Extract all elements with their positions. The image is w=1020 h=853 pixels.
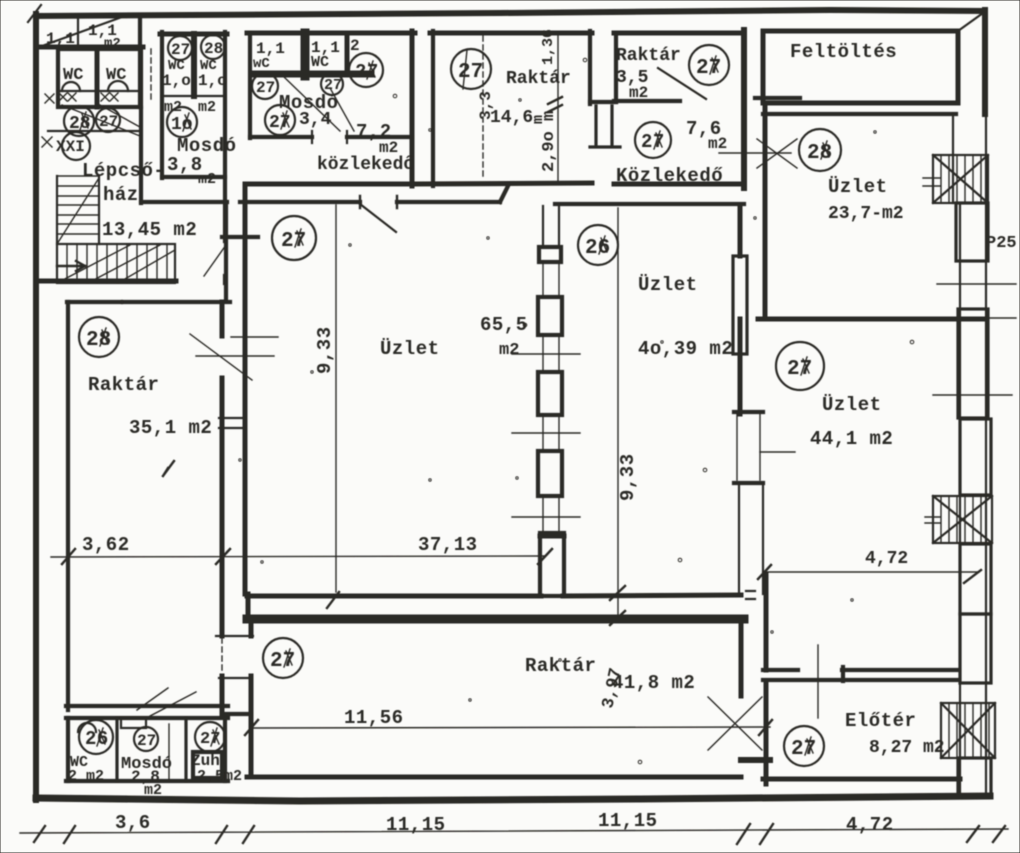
dashed door gap <box>221 638 223 674</box>
gap cross line b <box>512 353 580 355</box>
corner slash mark <box>28 5 41 22</box>
right pillar R3 <box>960 419 991 495</box>
sink fixture <box>121 718 146 728</box>
Mosdo34 block left wall <box>248 33 252 138</box>
wall stub to Feltoltes <box>755 96 800 100</box>
Raktar418 left wall lower <box>249 676 254 777</box>
svg-text:27: 27 <box>137 732 156 750</box>
small rooms divider 2 <box>184 718 187 781</box>
svg-text:27: 27 <box>270 650 295 673</box>
overstrike scribbles in circles <box>80 56 829 755</box>
kozlekedo bottom wall west <box>245 182 415 187</box>
x mark left of XXI <box>42 137 52 147</box>
landing bottom wall <box>38 279 176 284</box>
svg-text:2 m2: 2 m2 <box>68 768 104 785</box>
top-left band divider <box>77 18 79 46</box>
outer wall right top segment <box>982 10 988 114</box>
Raktar418 right wall <box>739 618 744 696</box>
svg-text:Üzlet: Üzlet <box>828 176 888 198</box>
Eloter dim tick line <box>817 645 819 718</box>
svg-text:WC: WC <box>63 66 83 85</box>
svg-text:27: 27 <box>324 77 342 94</box>
svg-text:m2: m2 <box>629 84 648 102</box>
pillar P4 cap <box>540 534 564 539</box>
svg-text:8,27 m2: 8,27 m2 <box>869 738 945 758</box>
svg-text:37,13: 37,13 <box>418 534 478 556</box>
shaft dashed line <box>150 49 152 101</box>
room circle 28 mosdo38 b <box>201 35 225 59</box>
pillar P4 bottom block <box>540 533 564 596</box>
room circle 27 mosdo34 c <box>349 53 383 87</box>
door diagonals to raktar <box>137 688 196 716</box>
svg-text:1,o: 1,o <box>162 72 191 90</box>
svg-text:26: 26 <box>585 237 610 260</box>
svg-text:27: 27 <box>791 738 816 761</box>
Mosdo38 shelf <box>162 95 225 97</box>
Uzlet door swing <box>360 204 396 232</box>
stair run diagonals <box>57 245 175 283</box>
Mosdo38 WC divider <box>191 34 197 96</box>
Uzlet east wall upper <box>738 206 743 256</box>
svg-text:P25: P25 <box>986 234 1017 253</box>
room circle 27 mosdo38 a <box>168 36 192 60</box>
room circle 28 wc left <box>64 106 94 136</box>
door swing diagonal mosdo34 b <box>330 88 354 131</box>
svg-text:27: 27 <box>696 57 721 80</box>
svg-text:9,33: 9,33 <box>617 453 639 501</box>
Raktar35 door diagonal <box>658 68 706 99</box>
door swing diagonal WC <box>62 105 140 136</box>
end tick uzlet bottom wall <box>746 591 755 599</box>
svg-text:27: 27 <box>458 61 483 84</box>
WC block right wall up to roof band <box>138 16 142 107</box>
room circle 27 wc left b <box>96 108 120 132</box>
room circle 27 raktar418 <box>263 638 303 678</box>
stub wall at corridor <box>222 235 258 239</box>
svg-text:közlekedő: közlekedő <box>317 155 414 175</box>
Raktar351 right wall low <box>220 676 225 714</box>
stair upper diagonal <box>57 178 99 244</box>
WC shelf line <box>58 90 141 92</box>
svg-text:11,15: 11,15 <box>598 810 658 832</box>
svg-text:1,1: 1,1 <box>46 30 75 48</box>
svg-text:3,4: 3,4 <box>299 110 332 130</box>
thin line right 2 <box>933 394 1012 396</box>
Uzlet40 top wall <box>555 202 744 206</box>
small rooms right wall <box>223 718 227 781</box>
svg-text:11,15: 11,15 <box>386 814 446 836</box>
line under WC circles <box>48 130 140 132</box>
room circle 26 wc bottom <box>79 720 113 754</box>
thin line under circle 28 <box>719 152 791 154</box>
pillar P2 <box>538 372 562 415</box>
svg-text:27: 27 <box>99 113 118 131</box>
pillar gap lines a <box>543 262 559 297</box>
svg-text:27: 27 <box>256 79 275 97</box>
window W2 left ticks <box>925 517 940 523</box>
fixture circle 10 <box>167 107 197 137</box>
room circle 27 mosdo bottom <box>134 727 158 751</box>
thin line beyond wall 319 <box>985 317 1016 319</box>
Eloter west wall <box>764 682 769 784</box>
Mosdo34 plumbing bar <box>252 71 371 78</box>
window W2 cross <box>933 496 992 543</box>
svg-text:1,36: 1,36 <box>540 29 557 65</box>
pillar gap lines d <box>543 496 559 533</box>
bottom dim line <box>20 829 1008 833</box>
stairwell top wall to corridor <box>141 200 227 204</box>
room circle 27 raktar35 <box>689 45 729 85</box>
Uzlet441 west wall upper <box>738 319 743 414</box>
pillar P1 <box>538 297 562 335</box>
window W1 left ticks <box>923 178 940 186</box>
Raktar35 bottom wall <box>614 99 680 103</box>
svg-text:Feltöltés: Feltöltés <box>790 41 897 63</box>
entrance stairs cross <box>941 703 995 758</box>
Uzlet237 top wall <box>763 112 956 116</box>
window W2 hatch <box>941 496 981 543</box>
shower box <box>193 752 222 778</box>
room circle 28 raktar351 <box>79 317 119 357</box>
Eloter top wall stub <box>763 668 798 672</box>
svg-text:11,56: 11,56 <box>344 707 404 729</box>
Raktar351 left wall <box>66 302 70 710</box>
entrance stairs W3 frame <box>941 703 995 758</box>
Uzlet top wall east of door <box>397 200 500 204</box>
Raktar351 top wall <box>67 300 230 304</box>
Raktar146 top wall <box>430 31 592 36</box>
Uzlet door jambs <box>360 196 397 208</box>
left double wall upper <box>224 202 228 300</box>
dim ticks 37 line <box>62 549 552 564</box>
Eloter west wall upper <box>764 574 769 670</box>
svg-text:14,6: 14,6 <box>490 108 533 128</box>
svg-text:Üzlet: Üzlet <box>822 394 882 416</box>
room circle 27 uzlet441 <box>776 342 824 390</box>
Raktar418 left wall upper <box>249 618 254 636</box>
svg-text:Üzlet: Üzlet <box>638 274 698 296</box>
Mosdo38 block right wall <box>223 32 227 241</box>
stair lower flight outline <box>57 244 175 283</box>
Mosdo38 right wall lower segment <box>223 276 227 283</box>
svg-text:27: 27 <box>787 358 812 381</box>
svg-text:2,9o m: 2,9o m <box>540 111 559 172</box>
svg-text:9,33: 9,33 <box>314 326 336 374</box>
door swing X to Eloter <box>708 697 762 750</box>
Uzlet441 wall opening bottom bar <box>734 481 763 485</box>
WC divider wall <box>95 49 100 107</box>
dim line vertical 2,90 <box>557 33 559 183</box>
Uzlet441 wall opening top bar <box>734 410 763 414</box>
door jamb ticks mosdo34 <box>312 131 347 143</box>
door swing diagonal WC 2 <box>100 105 140 127</box>
right wall outer line <box>985 114 987 795</box>
dim arrows on 2,90 <box>548 97 562 112</box>
svg-text:m2: m2 <box>499 341 519 360</box>
bottom dim ticks <box>34 824 1005 844</box>
stairwell right wall <box>139 108 143 203</box>
svg-text:m2: m2 <box>144 782 162 799</box>
svg-text:3,62: 3,62 <box>82 534 130 556</box>
tick on bottom wall <box>327 592 339 608</box>
svg-text:3,97: 3,97 <box>599 666 626 710</box>
svg-text:m2: m2 <box>198 171 216 188</box>
dim line 11,56 <box>251 727 770 728</box>
right wall inner line lower <box>959 203 961 795</box>
Uzlet bottom wall west <box>247 594 541 599</box>
svg-text:m2: m2 <box>198 99 216 116</box>
window W1 hatch <box>941 155 981 203</box>
small rooms divider 1 <box>115 718 118 781</box>
right pillar R1 <box>956 203 988 261</box>
Mosdo34 bottom wall left part <box>250 135 312 139</box>
Raktar146 right wall <box>588 31 592 104</box>
dim ticks 11,56 <box>245 720 772 735</box>
svg-text:4,72: 4,72 <box>865 549 908 569</box>
dim line 9,33 left <box>335 205 337 592</box>
door swing to Uzlet237 <box>757 139 797 168</box>
window W1 cross <box>933 155 988 203</box>
svg-text:m2: m2 <box>708 135 727 153</box>
Raktar35 top wall <box>614 31 744 36</box>
top-left roof diagonal <box>42 17 122 46</box>
small rooms top wall <box>66 716 228 720</box>
stair upper flight rails <box>56 176 58 244</box>
Uzlet441 wall opening jamb lines <box>737 414 760 480</box>
window W2 frame <box>933 496 992 543</box>
Mosdo34 WC divider 2 <box>345 33 350 74</box>
Raktar418 bottom wall <box>247 775 741 780</box>
stair lower flight treads <box>67 244 167 283</box>
Mosdo34 block right wall <box>410 31 415 186</box>
tick on 9,33 line <box>610 586 625 625</box>
Eloter bottom wall <box>763 777 960 782</box>
room circle 27 eloter <box>784 726 824 766</box>
shaft b door lines <box>590 106 620 147</box>
svg-text:13,45 m2: 13,45 m2 <box>102 219 197 241</box>
small rooms left wall <box>66 718 70 781</box>
door swing diagonal mosdo34 <box>284 77 340 131</box>
thin line right 1 <box>937 283 1016 285</box>
Uzlet top wall jog <box>500 186 508 202</box>
svg-text:WC: WC <box>311 54 329 71</box>
room circle 27 uzlet655 <box>272 216 316 260</box>
svg-text:4,72: 4,72 <box>846 814 894 836</box>
Mosdo38 bottom wall <box>162 175 225 179</box>
entrance stairs treads <box>949 703 989 758</box>
pillar gap lines c <box>543 415 559 451</box>
top-left band bottom wall <box>40 45 143 50</box>
room circle 26 uzlet40 <box>578 225 618 265</box>
colonnade upper wall <box>543 206 559 247</box>
svg-text:wC: wC <box>253 56 270 72</box>
right pillar R4 <box>960 544 991 614</box>
Uzlet bottom wall east <box>563 595 741 596</box>
door swing from stairwell <box>204 245 226 276</box>
shaft wall a <box>431 31 435 186</box>
kozlekedo bottom east extension <box>415 182 508 186</box>
svg-text:Üzlet: Üzlet <box>380 338 440 360</box>
sink x marks right <box>101 93 118 101</box>
toilet bowl right <box>108 81 128 91</box>
Uzlet441 west double wall lower <box>739 485 763 594</box>
small rooms thin divider <box>168 724 170 779</box>
dashed inner line <box>482 36 484 180</box>
Raktar35 right wall <box>741 30 747 188</box>
wall connector uzlet to raktar418 <box>246 594 251 620</box>
Mosdo34 bottom wall right part <box>347 135 412 139</box>
Eloter top wall low <box>763 678 958 682</box>
dim line 4,72 upper <box>763 571 979 573</box>
right pillar R5 <box>960 614 991 683</box>
wall stub small rooms <box>222 712 251 716</box>
Feltoltes room <box>763 31 958 103</box>
shaft b top connector <box>590 100 616 104</box>
room circle 27 zuh bottom <box>195 722 225 752</box>
Raktar351 door lines <box>196 337 278 356</box>
pillar P0 <box>539 247 561 262</box>
svg-text:28: 28 <box>807 142 832 165</box>
door jamb ticks left <box>216 636 253 678</box>
dim line 3,62 37,13 <box>51 556 545 557</box>
shaft b walls <box>614 33 618 102</box>
dim line 9,33 right <box>617 208 619 621</box>
stair arrow <box>57 261 85 271</box>
svg-text:ház: ház <box>103 184 139 206</box>
svg-text:27: 27 <box>171 41 190 59</box>
dim 4,72 ticks <box>758 565 981 583</box>
room circle 27 mosdo34 a <box>252 73 278 99</box>
svg-text:4o,39 m2: 4o,39 m2 <box>638 338 733 360</box>
scan specks <box>120 58 914 764</box>
Raktar418 top wall <box>247 615 744 624</box>
svg-text:35,1 m2: 35,1 m2 <box>129 417 212 439</box>
small rooms bottom wall <box>66 779 228 783</box>
kozlekedo east bottom wall <box>614 182 744 187</box>
Eloter top wall high <box>842 668 958 672</box>
svg-text:27: 27 <box>281 230 306 253</box>
svg-text:3,6: 3,6 <box>115 812 151 834</box>
svg-text:65,5: 65,5 <box>480 314 528 336</box>
room circle 27 mosdo34 d <box>265 105 295 135</box>
arrow on left wall <box>163 461 174 476</box>
Mosdo38 block left wall <box>160 32 164 178</box>
window W1 frame <box>933 155 988 203</box>
svg-text:Raktár: Raktár <box>525 655 596 677</box>
Mosdo34 plumbing stack <box>301 33 310 76</box>
svg-text:Előtér: Előtér <box>845 710 916 732</box>
svg-text:Lépcső-: Lépcső- <box>82 160 165 182</box>
right pillar R6 <box>958 758 991 795</box>
wall tick pair left double wall <box>219 418 245 428</box>
right pillar R2 <box>958 309 988 418</box>
wall between 237 and 441 <box>758 317 985 322</box>
svg-text:28: 28 <box>204 40 223 58</box>
svg-text:28: 28 <box>86 329 111 352</box>
WC block outline <box>58 49 141 107</box>
Raktar351 right wall upper <box>220 302 225 336</box>
Feltoltes corner diagonal <box>958 13 983 31</box>
Raktar418 door block <box>741 757 770 763</box>
svg-text:Raktár: Raktár <box>506 69 571 89</box>
svg-text:Raktár: Raktár <box>616 46 681 66</box>
svg-text:Raktár: Raktár <box>88 374 159 396</box>
gap cross line c <box>512 432 580 434</box>
fixture circle xxi <box>62 132 90 160</box>
toilet bowl left <box>62 82 80 91</box>
pillar gap lines b <box>543 335 559 372</box>
gap cross line d <box>512 516 580 518</box>
Mosdo34 block top wall <box>247 31 415 36</box>
toilet arc small <box>78 723 96 732</box>
right wall inner line <box>952 114 954 203</box>
room circle 27 mosdo34 b <box>321 73 343 95</box>
svg-text:1,o: 1,o <box>198 72 227 90</box>
svg-text:23,7-m2: 23,7-m2 <box>828 204 904 224</box>
Raktar146 bottom wall <box>415 183 592 184</box>
Raktar351 right wall mid <box>220 378 225 636</box>
sink x marks left <box>45 93 76 103</box>
Uzlet east wall pillar <box>733 256 747 354</box>
svg-text:2: 2 <box>350 37 360 55</box>
Uzlet top wall west of door <box>240 200 360 204</box>
outer wall bottom <box>36 796 990 801</box>
outer wall top <box>36 10 985 16</box>
Mosdo38 block top wall <box>160 32 227 37</box>
svg-text:XXI: XXI <box>56 138 85 156</box>
room circle 27 kozlekedo <box>635 122 671 158</box>
pillar P3 <box>538 451 562 496</box>
svg-text:44,1 m2: 44,1 m2 <box>810 428 893 450</box>
svg-text:3,3: 3,3 <box>477 91 495 120</box>
short door dim line <box>760 451 795 453</box>
stair upper flight treads <box>57 176 99 234</box>
Eloter top wall step <box>841 667 845 681</box>
room circle 28 uzlet237 <box>799 129 841 171</box>
Raktar351 bottom wall <box>66 704 228 708</box>
Uzlet east wall mid <box>738 354 743 414</box>
svg-text:28: 28 <box>69 114 91 134</box>
svg-text:WC: WC <box>106 66 126 85</box>
Uzlet237 left wall <box>763 103 768 316</box>
outer wall left <box>33 14 39 800</box>
Uzlet west wall <box>243 186 248 594</box>
svg-text:2,5m2: 2,5m2 <box>197 768 242 785</box>
room circle 27 raktar146 <box>451 49 491 89</box>
Raktar351 door swing <box>190 334 252 380</box>
svg-text:27: 27 <box>641 131 665 153</box>
